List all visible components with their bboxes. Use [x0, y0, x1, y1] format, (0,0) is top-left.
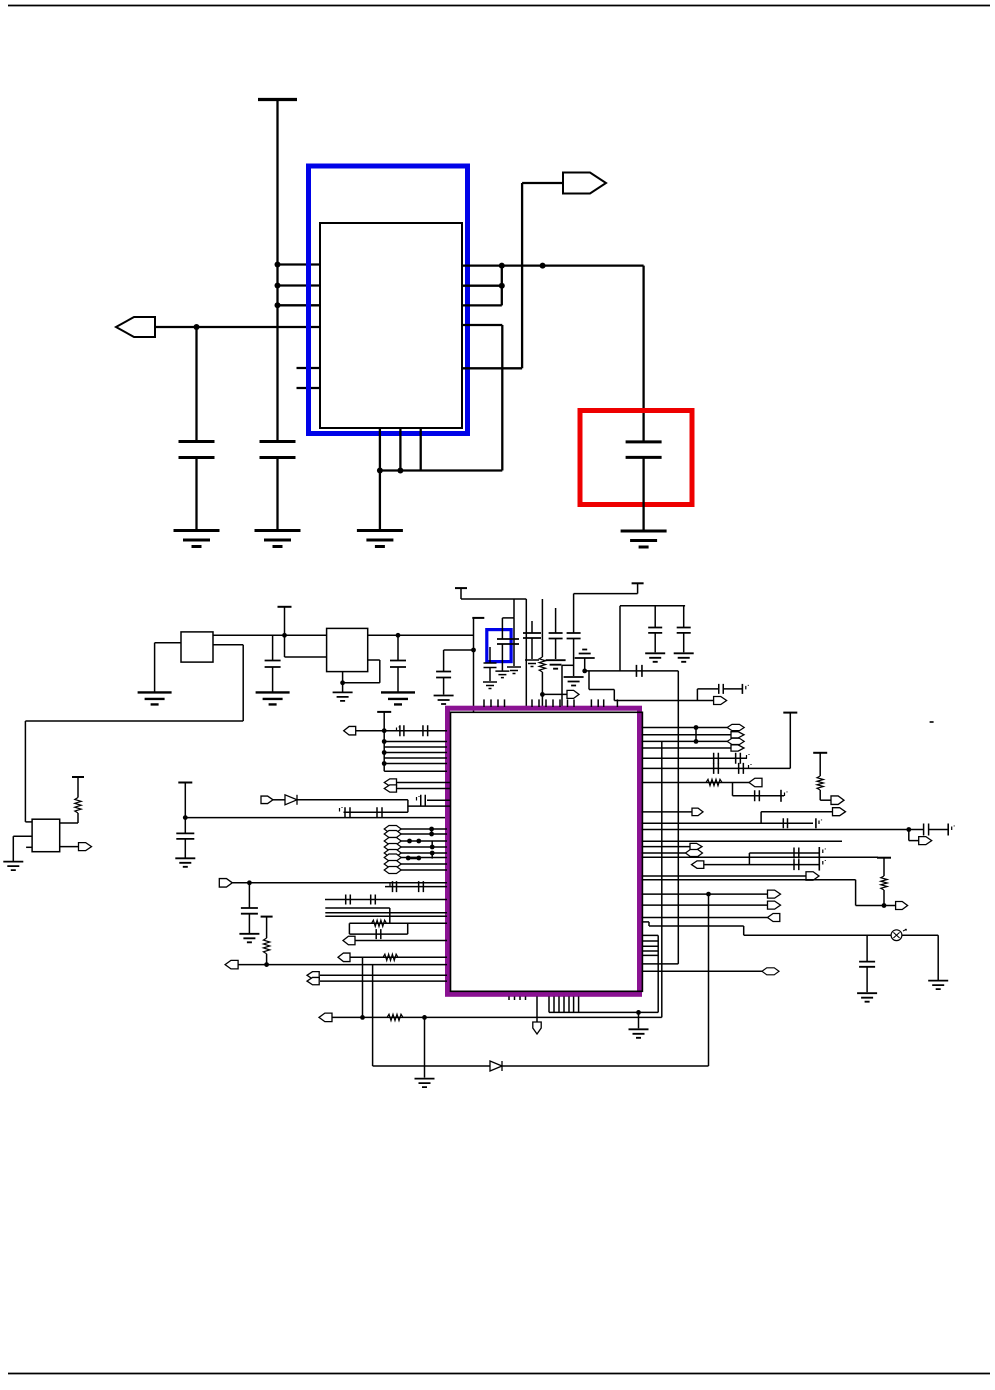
power bar	[72, 776, 84, 778]
net flag	[727, 738, 744, 744]
main IC U1	[451, 712, 643, 991]
wire	[573, 594, 575, 633]
capacitor	[567, 633, 581, 639]
pin stub	[26, 846, 32, 848]
wire	[407, 800, 409, 812]
label mark	[823, 849, 826, 854]
wire	[276, 98, 278, 442]
node	[430, 851, 435, 856]
wire	[531, 621, 533, 633]
capacitor	[783, 818, 787, 828]
node	[706, 892, 711, 897]
wire	[25, 720, 243, 722]
label	[930, 721, 934, 723]
pin stub	[568, 997, 570, 1013]
wire	[266, 954, 268, 965]
wire	[460, 588, 462, 599]
resistor	[372, 920, 387, 926]
capacitor end	[741, 684, 743, 694]
wire	[649, 925, 744, 927]
wire	[332, 1016, 662, 1018]
wire	[401, 833, 447, 835]
label mark	[746, 685, 749, 690]
pin stub	[603, 699, 605, 707]
wire	[325, 899, 447, 901]
wire	[154, 326, 320, 328]
pin stub	[490, 699, 492, 707]
wire	[350, 956, 447, 958]
wire	[380, 469, 502, 471]
wire	[356, 730, 448, 732]
wire	[760, 812, 762, 824]
wire	[397, 782, 451, 784]
node	[382, 728, 387, 733]
wire	[379, 660, 381, 683]
node	[183, 815, 188, 820]
power bar	[877, 857, 891, 859]
capacitor	[436, 672, 451, 678]
wire	[749, 852, 819, 854]
wire	[383, 712, 385, 771]
pin stub	[552, 699, 554, 707]
power bar	[261, 916, 273, 918]
ground	[564, 677, 584, 686]
capacitor	[924, 824, 929, 836]
wire	[642, 840, 843, 842]
node	[636, 1010, 641, 1015]
pin stub	[578, 997, 580, 1013]
wire	[574, 593, 638, 595]
wire	[501, 618, 503, 639]
node H	[377, 468, 383, 474]
ground	[138, 692, 172, 704]
net flag	[896, 902, 908, 910]
wire	[642, 875, 807, 877]
net flag	[384, 850, 401, 857]
node	[416, 856, 421, 861]
bus tie	[408, 857, 419, 860]
pin stub	[297, 367, 321, 369]
wire	[344, 811, 408, 813]
wire	[443, 650, 445, 672]
ground	[174, 531, 220, 547]
wire	[642, 852, 686, 854]
wire	[883, 890, 885, 906]
pin stub	[567, 699, 569, 707]
wire	[502, 617, 514, 619]
pin stub	[563, 997, 565, 1013]
pin stub	[642, 945, 658, 947]
wire	[648, 922, 650, 926]
wire	[277, 284, 321, 286]
resistor R10	[75, 798, 81, 814]
wire	[513, 599, 515, 618]
wire	[683, 633, 685, 652]
wire	[723, 688, 742, 690]
resistor	[881, 876, 887, 890]
wire	[642, 917, 768, 919]
wire	[761, 811, 832, 813]
wire	[732, 783, 734, 796]
wire	[704, 864, 820, 866]
pin stub	[573, 997, 575, 1013]
ground	[381, 692, 415, 704]
wire	[401, 828, 447, 830]
power bar	[472, 617, 484, 619]
wire	[654, 606, 656, 628]
pin stub	[573, 699, 575, 707]
wire	[613, 690, 615, 701]
highlight box blue small	[487, 630, 511, 662]
inductor L1	[539, 657, 545, 672]
wire	[561, 665, 563, 706]
wire	[542, 693, 567, 695]
wire	[384, 752, 447, 754]
resistor	[706, 779, 722, 785]
capacitor	[794, 848, 799, 859]
capacitor	[241, 908, 258, 914]
wire	[276, 458, 278, 531]
wire	[536, 997, 538, 1023]
resistor	[383, 954, 398, 960]
net flag	[567, 690, 579, 698]
capacitor end	[947, 824, 949, 836]
wire	[443, 678, 445, 695]
wire	[642, 811, 693, 813]
node G	[540, 263, 546, 269]
wire	[856, 905, 896, 907]
pin stub	[642, 950, 658, 952]
capacitor	[400, 725, 404, 736]
node	[582, 669, 587, 674]
regulator U2	[181, 632, 213, 662]
wire	[8, 5, 990, 7]
net flag down	[533, 1022, 541, 1034]
wire	[320, 980, 447, 982]
wire	[77, 813, 79, 823]
node	[340, 680, 345, 685]
capacitor end	[815, 818, 817, 828]
capacitor	[549, 633, 563, 639]
wire	[373, 1065, 709, 1067]
wire	[522, 182, 564, 184]
wire	[431, 841, 433, 847]
pin stub	[558, 997, 560, 1013]
wire	[349, 933, 407, 935]
highlight box purple	[448, 708, 640, 994]
wire	[408, 805, 450, 807]
net flag	[686, 850, 703, 857]
wire	[589, 689, 614, 691]
wire	[744, 934, 892, 936]
wire	[614, 700, 713, 702]
wire	[642, 904, 768, 906]
net flag	[384, 838, 401, 845]
node	[264, 962, 269, 967]
ground	[507, 667, 521, 674]
wire	[379, 428, 381, 471]
node I	[397, 468, 403, 474]
wire	[642, 757, 748, 759]
node	[471, 648, 476, 653]
wire	[407, 923, 409, 934]
capacitor	[714, 753, 719, 764]
diode D1	[490, 1061, 502, 1071]
node	[247, 880, 252, 885]
capacitor	[755, 790, 760, 801]
wire	[213, 634, 327, 636]
wire	[238, 964, 447, 966]
node	[396, 633, 401, 638]
wire	[379, 471, 381, 531]
wire	[683, 606, 685, 628]
pin stub	[531, 699, 533, 707]
node	[540, 692, 545, 697]
capacitor end	[818, 847, 820, 859]
node	[406, 856, 411, 861]
wire	[24, 721, 26, 822]
wire	[272, 635, 274, 660]
label mark	[340, 807, 343, 812]
net flag left	[116, 317, 155, 337]
pin stub	[297, 387, 321, 389]
capacitor	[484, 663, 497, 668]
ground	[3, 862, 23, 871]
capacitor	[393, 881, 397, 892]
wire	[642, 970, 763, 972]
capacitor	[714, 763, 719, 774]
net flag	[219, 879, 232, 888]
pin stub	[548, 997, 550, 1013]
wire	[642, 767, 791, 769]
wire	[883, 858, 885, 876]
power bar	[632, 582, 644, 584]
wire	[695, 728, 697, 742]
crystal module X1	[320, 223, 462, 428]
wire	[525, 599, 527, 706]
wire	[397, 667, 399, 692]
wire	[12, 836, 14, 861]
wire	[642, 822, 814, 824]
net flag	[727, 724, 744, 730]
net flag	[768, 914, 780, 922]
wire	[272, 667, 274, 692]
wire	[462, 264, 644, 266]
wire	[401, 857, 447, 859]
label mark	[819, 820, 822, 825]
net flag	[319, 1013, 332, 1022]
wire	[401, 863, 447, 865]
pin stub	[642, 940, 658, 942]
wire	[384, 741, 447, 743]
capacitor	[371, 895, 376, 905]
wire	[555, 639, 557, 660]
wire	[513, 618, 515, 666]
wire	[384, 746, 447, 748]
wire	[461, 598, 526, 600]
wire	[232, 882, 447, 884]
wire	[937, 935, 939, 980]
wire	[401, 846, 447, 848]
node F	[499, 283, 505, 289]
regulator U3	[327, 628, 368, 671]
wire	[77, 777, 79, 798]
wire	[489, 647, 491, 663]
wire	[489, 668, 491, 682]
net flag	[692, 808, 703, 816]
wire	[320, 974, 447, 976]
pin stub	[514, 997, 516, 1001]
net flag	[384, 785, 396, 792]
wire	[677, 671, 679, 964]
detector U4	[32, 819, 60, 852]
wire	[297, 799, 408, 801]
wire	[462, 324, 502, 326]
capacitor	[497, 639, 519, 644]
wire	[642, 457, 644, 531]
resistor	[817, 776, 823, 790]
net flag	[338, 953, 350, 962]
capacitor	[859, 962, 875, 967]
wire	[748, 853, 750, 865]
wire	[642, 829, 924, 831]
wire	[273, 799, 285, 801]
net flag	[806, 872, 819, 881]
wire	[708, 894, 710, 1066]
net flag	[714, 697, 727, 705]
wire	[13, 835, 32, 837]
wire	[325, 915, 447, 917]
capacitor	[794, 859, 799, 870]
ground	[255, 531, 301, 547]
ground	[546, 660, 566, 669]
net flag	[384, 779, 396, 786]
wire	[642, 734, 732, 736]
wire	[462, 285, 502, 287]
net flag	[831, 796, 844, 805]
node	[382, 739, 387, 744]
wire	[185, 817, 447, 819]
node B	[275, 283, 281, 289]
net flag	[762, 968, 779, 975]
wire	[501, 325, 503, 471]
node	[407, 839, 412, 844]
pin stub	[538, 699, 540, 707]
capacitor	[377, 807, 382, 817]
pin stub	[519, 997, 521, 1001]
net flag	[384, 854, 401, 861]
node	[382, 761, 387, 766]
highlight box blue	[309, 166, 468, 434]
wire	[424, 1017, 426, 1077]
ground	[525, 660, 539, 667]
net flag	[768, 901, 781, 909]
wire	[248, 914, 250, 934]
net flag	[384, 826, 401, 833]
wire	[642, 846, 691, 848]
wire	[531, 638, 533, 659]
power bar	[455, 587, 467, 589]
wire	[397, 635, 399, 660]
wire	[427, 799, 450, 801]
power bar	[278, 606, 292, 608]
wire	[584, 658, 586, 671]
wire	[355, 940, 447, 942]
capacitor	[648, 628, 662, 633]
wire	[642, 727, 730, 729]
net flag	[384, 844, 401, 851]
wire	[184, 839, 186, 858]
node A	[275, 262, 281, 268]
net flag	[307, 972, 319, 979]
wire	[657, 935, 659, 1012]
power bar	[813, 752, 827, 754]
net flag	[731, 745, 744, 751]
wire	[573, 639, 575, 677]
net flag	[690, 843, 702, 850]
pin stub	[545, 699, 547, 707]
ground	[621, 531, 667, 547]
wire	[642, 963, 679, 965]
wire	[384, 757, 447, 759]
net flag	[225, 960, 238, 969]
wire	[325, 912, 447, 914]
wire	[789, 713, 791, 769]
node	[906, 827, 911, 832]
wire	[348, 923, 350, 934]
wire	[642, 921, 650, 923]
net flag	[692, 861, 704, 869]
wire	[431, 853, 433, 859]
wire	[642, 747, 732, 749]
net flag	[307, 977, 319, 984]
wire	[368, 659, 380, 661]
wire	[368, 634, 474, 636]
pin stub	[597, 699, 599, 707]
ground	[175, 858, 195, 867]
wire	[642, 879, 856, 881]
capacitor	[421, 795, 426, 806]
wire	[60, 846, 79, 848]
ground	[239, 934, 259, 943]
wire	[284, 607, 286, 636]
wire	[284, 635, 286, 657]
ground	[483, 682, 497, 689]
node	[429, 832, 434, 837]
highlight box red	[580, 411, 692, 505]
wire	[325, 907, 390, 909]
wire	[541, 672, 543, 706]
pin stub	[616, 699, 618, 707]
capacitor	[739, 763, 744, 774]
capacitor	[423, 725, 428, 736]
ground	[495, 671, 509, 678]
label mark	[749, 764, 752, 769]
wire	[266, 917, 268, 939]
label mark	[397, 727, 400, 732]
net flag	[384, 831, 401, 838]
net flag right	[563, 173, 606, 194]
pin stub	[525, 997, 527, 1001]
wire	[733, 795, 785, 797]
wire	[399, 428, 401, 471]
node	[882, 903, 887, 908]
capacitor	[345, 807, 350, 817]
wire	[473, 618, 475, 712]
wire	[385, 886, 447, 888]
wire	[549, 1011, 658, 1013]
pin stub	[483, 699, 485, 707]
